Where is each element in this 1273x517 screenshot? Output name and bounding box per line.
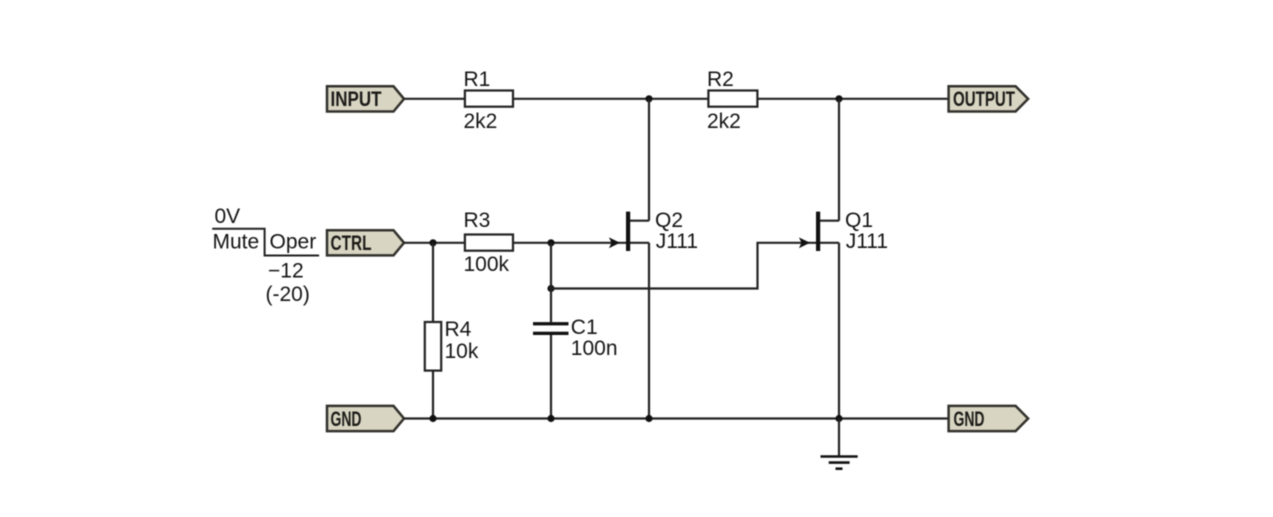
svg-text:2k2: 2k2 — [464, 110, 498, 133]
svg-text:R1: R1 — [464, 68, 491, 91]
resistor R1 — [464, 68, 514, 133]
port OUTPUT — [949, 86, 1029, 111]
svg-text:CTRL: CTRL — [331, 232, 372, 255]
svg-text:GND: GND — [331, 408, 362, 431]
svg-text:J111: J111 — [846, 230, 888, 253]
Q1 gate arrowhead — [799, 237, 810, 248]
node junction R4 / ground rail — [429, 415, 436, 422]
wire R3 to Q2 gate — [513, 242, 626, 244]
transistor Q1 — [816, 209, 888, 253]
wire branch to Q1 gate — [551, 243, 816, 289]
svg-text:Mute: Mute — [213, 231, 260, 254]
svg-text:C1: C1 — [571, 316, 598, 339]
port GND right — [949, 406, 1029, 431]
transistor Q2 — [626, 209, 698, 253]
svg-text:R4: R4 — [445, 318, 472, 341]
svg-text:(-20): (-20) — [266, 283, 310, 306]
wire Q2 drain up to top rail — [648, 99, 650, 221]
node junction Q2 source / ground rail — [645, 415, 652, 422]
capacitor C1 — [533, 316, 618, 360]
svg-text:0V: 0V — [215, 205, 241, 228]
node junction top at Q2 drain — [645, 95, 652, 102]
wire C1 bottom to ground rail — [550, 335, 552, 419]
node junction C1 top / gate branch — [547, 285, 554, 292]
svg-text:J111: J111 — [656, 230, 698, 253]
port INPUT — [327, 86, 404, 111]
svg-text:Oper: Oper — [270, 231, 317, 254]
svg-text:GND: GND — [954, 408, 985, 431]
node junction CTRL / R4 — [429, 239, 436, 246]
svg-text:10k: 10k — [445, 340, 479, 363]
resistor R4 — [425, 318, 479, 371]
wire Q2 source down to ground rail — [648, 243, 650, 419]
port GND left — [327, 406, 404, 431]
svg-text:OUTPUT: OUTPUT — [953, 88, 1015, 111]
node junction R3 out / C1 — [547, 239, 554, 246]
wire ground rail — [404, 417, 949, 419]
annotation waveform 0V / Mute-Oper step — [212, 205, 319, 306]
wire R4 to ground rail — [432, 371, 434, 419]
resistor R3 — [464, 209, 514, 276]
wire INPUT to R1 — [404, 98, 465, 100]
Q2 gate arrowhead — [609, 237, 620, 248]
node junction Q1 source / ground rail — [835, 415, 842, 422]
node junction top at Q1 drain — [835, 95, 842, 102]
wire CTRL to R3 — [404, 242, 465, 244]
node junction C1 / ground rail — [547, 415, 554, 422]
svg-text:Q1: Q1 — [845, 209, 873, 232]
svg-text:100n: 100n — [571, 337, 618, 360]
svg-text:INPUT: INPUT — [331, 88, 382, 111]
svg-text:−12: −12 — [268, 260, 304, 283]
svg-text:100k: 100k — [464, 253, 510, 276]
svg-text:2k2: 2k2 — [707, 110, 741, 133]
wire R2 to OUTPUT — [757, 98, 948, 100]
wire CTRL node down to R4 — [432, 243, 434, 322]
svg-text:R2: R2 — [707, 68, 734, 91]
ground symbol — [821, 419, 858, 469]
port CTRL — [327, 230, 404, 255]
resistor R2 — [707, 68, 757, 133]
wire Q1 source down to ground rail — [838, 243, 840, 419]
wire R1 to R2 — [513, 98, 708, 100]
svg-text:R3: R3 — [464, 209, 491, 232]
wire C1 column down from R3 node — [550, 243, 552, 322]
wire Q1 drain up to top rail — [838, 99, 840, 221]
svg-text:Q2: Q2 — [655, 209, 683, 232]
